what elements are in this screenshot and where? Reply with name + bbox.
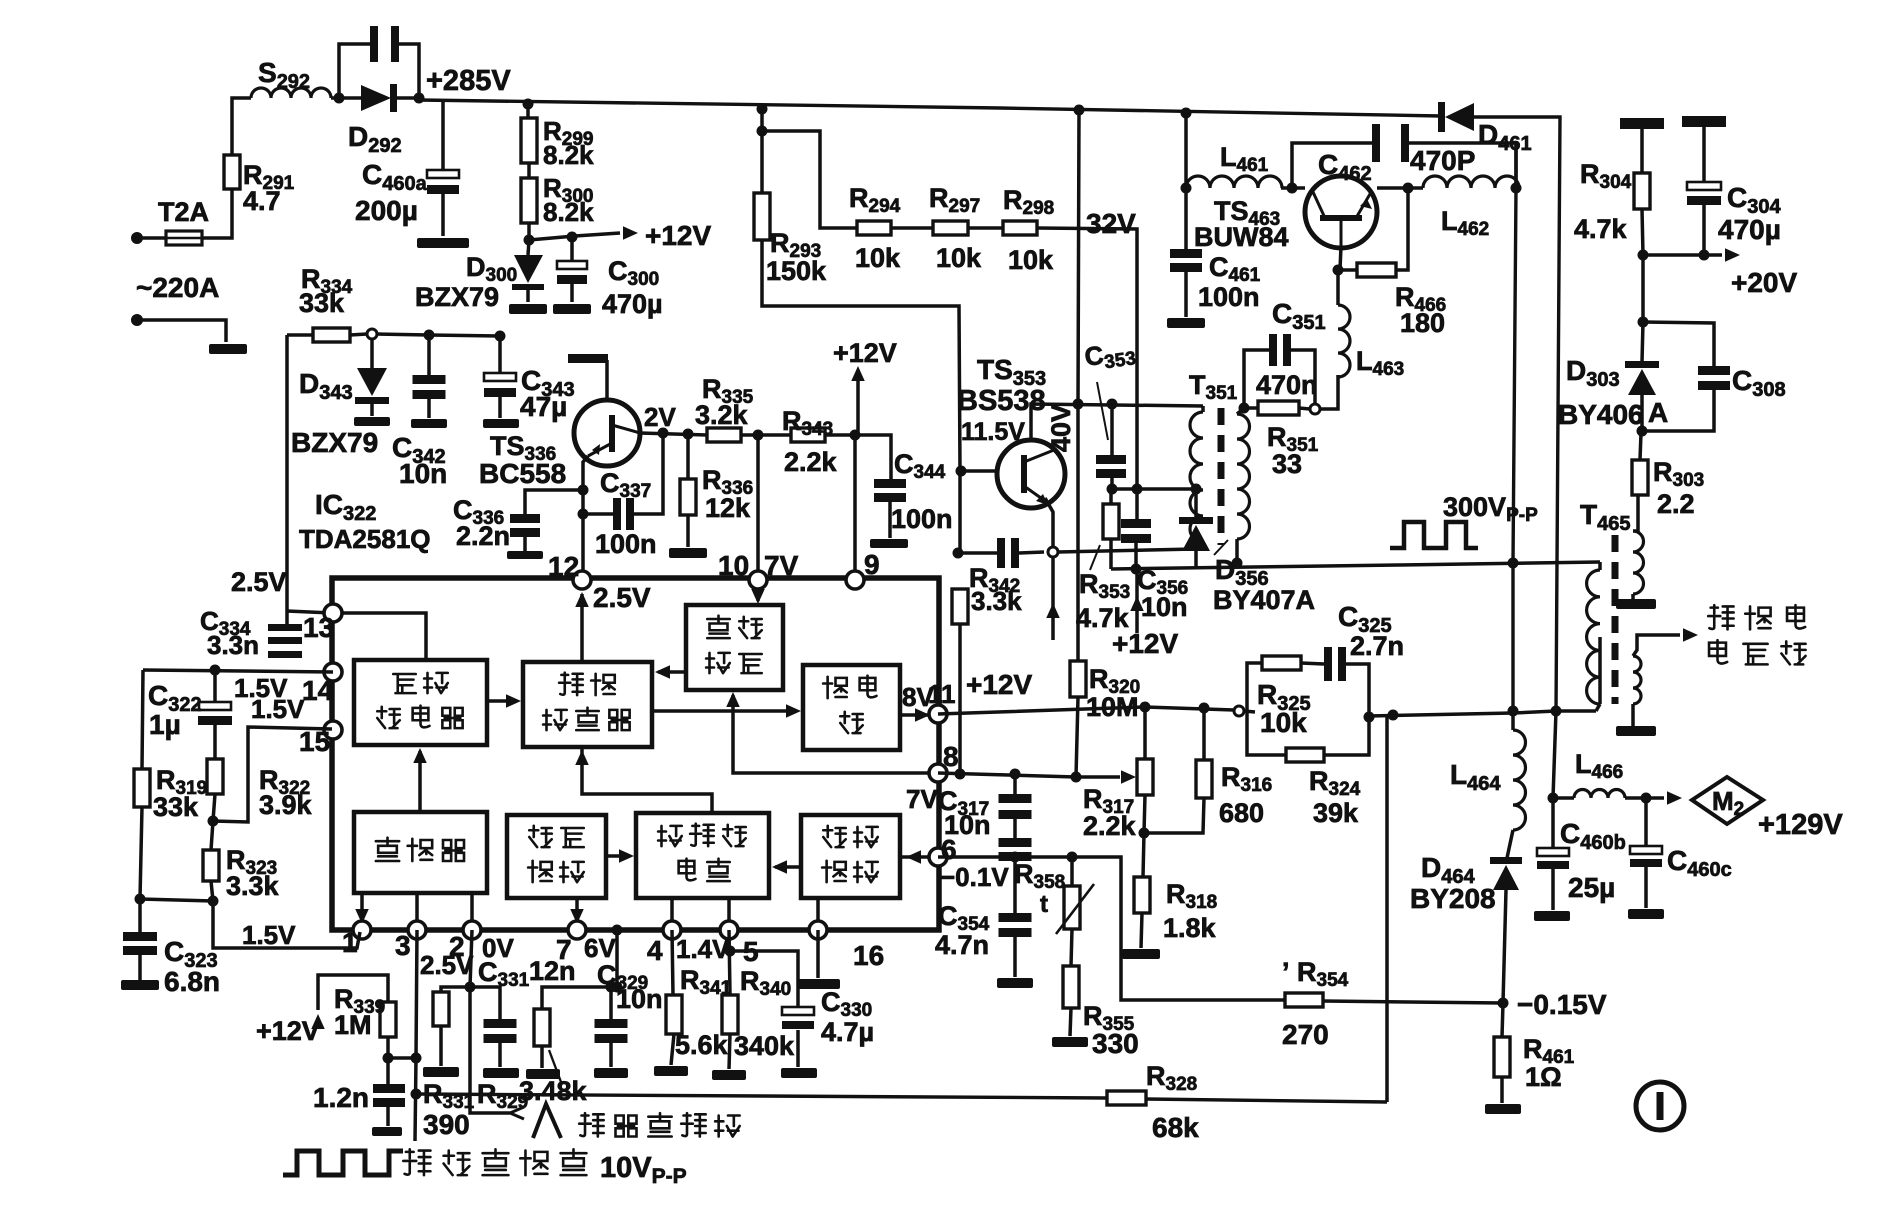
svg-text:340k: 340k xyxy=(734,1031,795,1061)
wire xyxy=(1013,857,1017,861)
wire pin10 to error amp xyxy=(756,588,760,601)
wire xyxy=(762,240,960,470)
wire xyxy=(1385,717,1389,1102)
node xyxy=(1498,998,1509,1009)
svg-text:470µ: 470µ xyxy=(1718,214,1781,245)
wire xyxy=(350,334,367,335)
transistor TS336 xyxy=(574,400,640,466)
label line sync signal (hang tong bu xin hao) xyxy=(403,1149,430,1175)
svg-text:390: 390 xyxy=(423,1109,470,1140)
wire xyxy=(1507,830,1513,858)
resistor R294 xyxy=(857,221,891,235)
resistor R299 xyxy=(521,118,537,163)
resistor R319 xyxy=(134,769,150,807)
node xyxy=(725,946,736,957)
block phase detector (jian xiang qi) xyxy=(354,812,487,893)
svg-text:1µ: 1µ xyxy=(149,709,181,740)
wire xyxy=(1640,129,1644,173)
wire xyxy=(1642,322,1643,362)
block output stage (shu chu ji) xyxy=(803,665,900,750)
node xyxy=(953,548,964,559)
wire 2.5V vertical xyxy=(285,335,289,628)
svg-text:33k: 33k xyxy=(299,288,345,318)
wire xyxy=(542,987,617,1009)
ground xyxy=(1052,1037,1088,1047)
wire xyxy=(213,670,217,703)
node xyxy=(1239,403,1250,414)
wire pin10 riser xyxy=(756,435,760,580)
svg-text:2.5V: 2.5V xyxy=(420,950,474,980)
wire xyxy=(386,1037,390,1058)
wire xyxy=(570,237,574,262)
node xyxy=(465,982,476,993)
wire base xyxy=(961,469,997,473)
wire node A xyxy=(1111,487,1196,491)
squarewave 300Vp-p xyxy=(1390,522,1478,548)
resistor R353 xyxy=(1103,504,1119,539)
svg-text:7V: 7V xyxy=(906,784,938,814)
svg-text:3.3n: 3.3n xyxy=(207,630,259,660)
node xyxy=(208,896,219,907)
transistor TS463 xyxy=(1305,176,1377,248)
wire +12V stub xyxy=(1135,573,1139,633)
svg-text:10k: 10k xyxy=(936,243,982,273)
wire xyxy=(202,189,232,238)
arrow xyxy=(1683,628,1698,642)
node xyxy=(1333,265,1344,276)
node AC line input terminal xyxy=(131,232,143,244)
wire collector xyxy=(605,360,609,400)
capacitor C317 xyxy=(999,794,1032,803)
svg-text:16: 16 xyxy=(853,940,884,971)
wire xyxy=(857,435,891,480)
resistor R342 xyxy=(952,589,968,624)
wire xyxy=(1369,713,1513,716)
wire xyxy=(213,794,215,821)
wire pin8 to error amp xyxy=(733,695,938,773)
svg-text:12k: 12k xyxy=(705,493,751,523)
ground xyxy=(553,304,591,314)
resistor R303 xyxy=(1632,460,1648,495)
wire xyxy=(727,898,731,930)
resistor R461 xyxy=(1494,1037,1510,1077)
wire xyxy=(287,333,313,337)
wire xyxy=(138,899,142,933)
node xyxy=(1074,105,1085,116)
potentiometer R317 xyxy=(1137,759,1153,795)
svg-text:32V: 32V xyxy=(1086,208,1136,239)
arrow xyxy=(906,850,921,864)
wire xyxy=(1202,708,1206,760)
ground xyxy=(1167,318,1205,328)
diode D300 zener xyxy=(514,255,543,283)
wire xyxy=(1184,113,1188,188)
wire right bus xyxy=(1514,143,1518,188)
svg-text:1.2n: 1.2n xyxy=(313,1082,369,1113)
wire pin2 down xyxy=(470,930,472,987)
wire xyxy=(498,1043,502,1067)
svg-text:12n: 12n xyxy=(529,956,576,986)
wire pin6 net -0.1V xyxy=(938,857,1285,1000)
svg-text:BZX79: BZX79 xyxy=(415,282,499,312)
transformer T465 secondary top xyxy=(1633,531,1644,594)
wire OVP to slow start xyxy=(606,854,630,858)
wire xyxy=(1144,795,1145,833)
svg-text:BY407A: BY407A xyxy=(1213,585,1315,615)
ground xyxy=(483,419,519,428)
wire xyxy=(526,290,530,302)
wire R325 loop xyxy=(1247,663,1262,711)
pin 5 of IC322 xyxy=(720,921,738,939)
wire xyxy=(1071,929,1072,966)
leader line xyxy=(1090,545,1100,570)
page marker 1 xyxy=(1636,1082,1684,1130)
node xyxy=(1191,484,1202,495)
capacitor C336 xyxy=(510,514,540,523)
wire xyxy=(1596,704,1600,711)
node xyxy=(1181,108,1192,119)
node connector xyxy=(1310,404,1320,414)
pin 10 of IC322 xyxy=(749,571,767,589)
svg-text:2V: 2V xyxy=(644,402,676,432)
resistor R339 xyxy=(380,1002,396,1037)
wire pin11 net xyxy=(938,707,1234,714)
wire 32V xyxy=(1037,228,1137,489)
svg-text:9: 9 xyxy=(864,549,880,580)
wire xyxy=(1244,406,1258,410)
node xyxy=(1638,317,1649,328)
wire xyxy=(470,893,474,930)
wire xyxy=(1013,819,1017,838)
svg-text:1.8k: 1.8k xyxy=(1163,913,1217,943)
wire xyxy=(1642,209,1643,255)
ground xyxy=(209,344,247,354)
svg-text:39k: 39k xyxy=(1313,798,1359,828)
svg-text:100n: 100n xyxy=(891,504,953,534)
node xyxy=(1140,702,1151,713)
capacitor across D292 xyxy=(370,26,378,62)
wire emitter to pin12 line xyxy=(583,456,588,580)
node xyxy=(495,331,506,342)
wire xyxy=(142,670,143,769)
svg-text:2.2: 2.2 xyxy=(1657,489,1695,519)
wire xyxy=(1640,395,1644,431)
pin 14 of IC322 xyxy=(324,663,342,681)
wire C353 xyxy=(1110,404,1114,456)
wire xyxy=(1598,562,1602,570)
inductor L464 xyxy=(1513,730,1526,830)
capacitor C354 xyxy=(999,913,1032,922)
svg-text:4.7n: 4.7n xyxy=(935,930,989,960)
node xyxy=(753,430,764,441)
wire xyxy=(339,44,370,98)
node connector xyxy=(367,329,377,339)
ground xyxy=(1616,599,1656,609)
pin 2 of IC322 xyxy=(463,921,481,939)
svg-text:8.2k: 8.2k xyxy=(543,197,594,227)
wire xyxy=(498,397,502,418)
resistor R343 xyxy=(791,428,825,442)
wire sync column xyxy=(415,930,417,1141)
wire error amp to PWM xyxy=(658,670,686,674)
svg-text:2.2k: 2.2k xyxy=(784,447,838,477)
svg-text:−0.15V: −0.15V xyxy=(1517,989,1607,1020)
ground xyxy=(1616,726,1656,736)
svg-text:270: 270 xyxy=(1282,1019,1329,1050)
svg-text:3.48k: 3.48k xyxy=(519,1076,588,1106)
svg-text:7V: 7V xyxy=(764,550,799,581)
wire xyxy=(583,512,613,516)
wire xyxy=(1013,857,1017,914)
ground xyxy=(1122,949,1160,959)
resistor R304 xyxy=(1634,173,1650,209)
capacitor C337 xyxy=(613,498,621,530)
svg-text:10n: 10n xyxy=(944,810,991,840)
wire xyxy=(1141,913,1142,948)
wire C351 loop xyxy=(1244,350,1271,408)
wire C462 loop xyxy=(1292,143,1372,188)
wire emitter xyxy=(1045,498,1053,552)
pin 9 of IC322 xyxy=(846,571,864,589)
wire xyxy=(1110,478,1114,489)
resistor R318 xyxy=(1134,877,1150,913)
svg-text:100n: 100n xyxy=(595,529,657,559)
wire xyxy=(1702,205,1706,255)
transformer T351 core xyxy=(1218,408,1225,545)
node xyxy=(1131,564,1142,575)
wire R339 top to +12V xyxy=(318,975,388,1010)
wire xyxy=(441,987,470,992)
node +285V xyxy=(414,93,425,104)
node xyxy=(1107,484,1118,495)
inductor S292 xyxy=(251,88,331,98)
arrow xyxy=(355,909,369,924)
arrow xyxy=(575,750,589,765)
pin 15 of IC322 xyxy=(324,721,342,739)
inductor L466 xyxy=(1574,790,1625,799)
arrow +12V xyxy=(1130,596,1144,611)
svg-text:15: 15 xyxy=(299,726,330,757)
node xyxy=(606,982,617,993)
wire xyxy=(360,893,364,930)
wire xyxy=(1641,255,1645,322)
wire PWM to output stage xyxy=(652,709,797,713)
wire xyxy=(1377,186,1423,190)
wire xyxy=(441,100,445,171)
wire pin6 to OCP xyxy=(900,855,938,859)
wire xyxy=(138,955,142,980)
wire right bus 2 xyxy=(1513,188,1516,711)
svg-text:3.9k: 3.9k xyxy=(259,790,313,820)
capacitor xyxy=(997,538,1005,568)
wire xyxy=(1237,409,1243,414)
svg-text:2.2k: 2.2k xyxy=(1083,811,1137,841)
wire xyxy=(672,930,673,995)
ground xyxy=(372,1127,402,1136)
wire +12V tap xyxy=(529,233,620,240)
svg-text:4.7: 4.7 xyxy=(243,186,281,216)
wire xyxy=(1135,489,1139,521)
wire xyxy=(470,987,500,1020)
transformer T351 primary xyxy=(1190,412,1203,542)
svg-text:1Ω: 1Ω xyxy=(1525,1062,1562,1092)
svg-text:+12V: +12V xyxy=(966,669,1032,700)
wire xyxy=(1338,268,1357,272)
wire base drive out xyxy=(1633,635,1680,656)
node xyxy=(1010,852,1021,863)
block VCO (ya kong zhen dang qi) xyxy=(354,660,487,745)
pin 12 of IC322 xyxy=(573,571,591,589)
wire xyxy=(397,96,419,100)
arrow xyxy=(570,909,584,924)
node xyxy=(612,925,623,936)
wire R328 net xyxy=(416,1094,1107,1098)
resistor R351 xyxy=(1258,401,1299,415)
wire R324 loop xyxy=(1247,711,1286,755)
node xyxy=(1388,710,1399,721)
wire xyxy=(1502,1003,1503,1037)
wire xyxy=(1143,707,1147,759)
leader line xyxy=(549,1050,561,1082)
node xyxy=(850,430,861,441)
wire xyxy=(1194,489,1198,517)
node xyxy=(1139,828,1150,839)
ground xyxy=(594,1068,628,1078)
svg-text:1.4V: 1.4V xyxy=(676,934,730,964)
ground xyxy=(507,551,543,559)
svg-text:470µ: 470µ xyxy=(602,289,663,319)
svg-text:BY406: BY406 xyxy=(1558,399,1644,430)
node xyxy=(208,816,219,827)
resistor R335 xyxy=(707,428,741,442)
wire xyxy=(1184,188,1188,249)
wire xyxy=(211,881,213,901)
wire xyxy=(1201,542,1205,549)
svg-text:68k: 68k xyxy=(1152,1112,1199,1143)
node xyxy=(411,1089,422,1100)
wire xyxy=(1134,543,1138,569)
svg-text:680: 680 xyxy=(1219,798,1264,828)
ground xyxy=(1485,1104,1521,1114)
wire xyxy=(1146,1099,1387,1102)
capacitor C304 xyxy=(1687,182,1721,190)
wire xyxy=(427,335,431,375)
resistor R322 xyxy=(207,759,223,794)
wire xyxy=(1109,539,1113,569)
wire xyxy=(1474,117,1560,711)
arrow +12V xyxy=(311,1014,325,1029)
capacitor C342 xyxy=(413,375,446,384)
svg-text:2.7n: 2.7n xyxy=(1350,631,1404,661)
wire xyxy=(523,537,527,551)
node xyxy=(1010,769,1021,780)
svg-text:A: A xyxy=(1648,397,1668,428)
terminal bar xyxy=(568,354,608,363)
node xyxy=(1551,706,1562,717)
node xyxy=(424,330,435,341)
wire xyxy=(1644,798,1648,847)
label hang shu chu (line output) xyxy=(1708,605,1733,629)
arrow xyxy=(772,860,787,874)
wire xyxy=(1013,774,1017,795)
wire pin12 to PWM xyxy=(580,594,584,662)
svg-text:3.2k: 3.2k xyxy=(695,400,749,430)
svg-text:+12V: +12V xyxy=(1112,628,1178,659)
IC U322 TDA2581Q outline xyxy=(332,578,939,930)
diode D356 xyxy=(1179,517,1213,524)
wire xyxy=(968,226,1003,230)
ground xyxy=(870,539,908,548)
node xyxy=(383,1053,394,1064)
svg-text:10n: 10n xyxy=(399,458,447,489)
ground xyxy=(669,548,707,558)
resistor R320 xyxy=(1070,661,1086,697)
wire C308 loop xyxy=(1643,322,1714,367)
resistor R336 xyxy=(680,479,696,515)
wire 1.5V node xyxy=(143,670,333,672)
capacitor C460b xyxy=(1537,848,1569,856)
resistor R340 xyxy=(722,995,738,1034)
ground xyxy=(781,1068,817,1078)
node xyxy=(1132,484,1143,495)
svg-text:3.3k: 3.3k xyxy=(971,586,1022,616)
wire xyxy=(1320,375,1338,409)
fuse T2A xyxy=(166,231,202,245)
wire xyxy=(232,98,251,155)
resistor R325 xyxy=(1262,656,1301,670)
svg-text:200µ: 200µ xyxy=(355,195,418,226)
node xyxy=(1073,399,1084,410)
resistor R300 xyxy=(521,178,537,223)
svg-text:6.8n: 6.8n xyxy=(164,966,220,997)
wire xyxy=(1503,890,1506,1003)
node xyxy=(1107,399,1118,410)
diode D343 zener xyxy=(357,368,387,396)
node xyxy=(135,894,146,905)
wire xyxy=(729,930,730,995)
capacitor C330 xyxy=(782,1007,814,1015)
svg-text:+12V: +12V xyxy=(645,220,711,251)
inductor L463 xyxy=(1338,305,1350,377)
leader line xyxy=(1097,382,1108,440)
pin 7 of IC322 xyxy=(568,921,586,939)
wire xyxy=(1500,1077,1504,1103)
capacitor C343 xyxy=(484,373,516,381)
wire flyback input xyxy=(470,987,510,1113)
wire xyxy=(1511,711,1515,730)
wire emitter xyxy=(1340,246,1341,270)
svg-text:−0.1V: −0.1V xyxy=(940,862,1009,892)
wire xyxy=(816,930,820,978)
capacitor C462 xyxy=(1372,124,1380,162)
svg-text:180: 180 xyxy=(1400,308,1445,338)
diode D461 xyxy=(1438,102,1445,132)
wire xyxy=(1553,796,1574,800)
svg-text:+12V: +12V xyxy=(833,338,897,368)
wire xyxy=(370,339,374,368)
svg-text:3: 3 xyxy=(395,930,411,961)
wire xyxy=(388,1056,416,1060)
arrow xyxy=(1121,770,1136,784)
ground xyxy=(423,1067,459,1077)
wire xyxy=(741,433,791,437)
capacitor C308 xyxy=(1698,366,1730,375)
wire xyxy=(1019,552,1044,553)
svg-text:t: t xyxy=(1040,891,1048,918)
node xyxy=(578,485,589,496)
transformer T351 secondary xyxy=(1237,414,1250,539)
label line flyback pulse (hang hui sao mai chong) xyxy=(579,1113,604,1136)
